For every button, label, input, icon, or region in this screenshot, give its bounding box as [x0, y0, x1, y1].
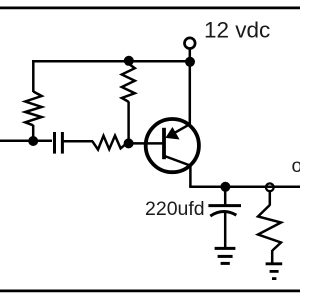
- wire terminal stem: [189, 48, 192, 61]
- resistor R2 (upper bias): [122, 64, 135, 102]
- ground below R4: [266, 264, 283, 279]
- wire base lead: [129, 142, 164, 145]
- resistor R4 (load): [258, 205, 281, 251]
- junction input node: [28, 136, 38, 146]
- junction base node: [124, 138, 134, 148]
- svg-text:out: out: [292, 155, 301, 177]
- junction supply node: [185, 57, 195, 67]
- wire input: [0, 140, 52, 143]
- wire output terminal to R4: [269, 192, 272, 206]
- terminal +12V (open circle): [185, 38, 196, 49]
- svg-text:12 vdc: 12 vdc: [204, 18, 270, 43]
- collector lead: [165, 156, 191, 187]
- junction top of R2: [124, 56, 134, 66]
- frame bottom border: [0, 290, 300, 293]
- junction output cap node: [220, 182, 230, 192]
- wire output rail: [189, 186, 300, 189]
- capacitor C2 220ufd (polarized): [208, 187, 241, 248]
- wire R1 bottom: [32, 125, 35, 141]
- wire R4 to ground: [271, 250, 274, 263]
- wire top rail: [32, 60, 190, 63]
- resistor R1 (left bias): [25, 92, 42, 126]
- emitter lead with arrow: [168, 124, 190, 136]
- wire left rail down: [32, 60, 35, 92]
- transistor Q1 (PNP): [146, 119, 199, 187]
- wire C1 to R3: [64, 140, 94, 143]
- capacitor C1 input coupling: [55, 132, 63, 154]
- terminal output (open circle): [266, 183, 274, 191]
- ground below C2: [215, 248, 236, 263]
- wire supply vertical: [189, 62, 192, 125]
- resistor R3 (series base): [92, 136, 127, 150]
- frame top border: [0, 7, 300, 10]
- wire R2 to base node: [127, 101, 130, 143]
- svg-text:220ufd: 220ufd: [145, 198, 205, 220]
